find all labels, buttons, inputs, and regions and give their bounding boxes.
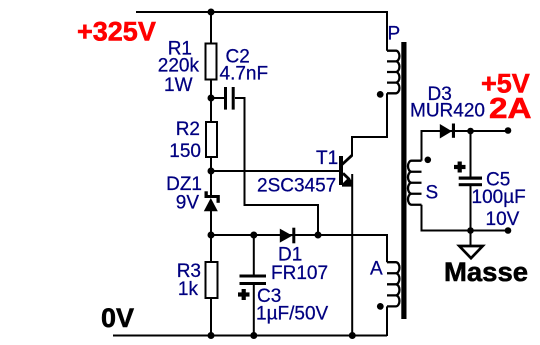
svg-text:FR107: FR107 (271, 263, 328, 284)
svg-text:R2: R2 (176, 119, 200, 140)
svg-text:1k: 1k (178, 279, 199, 300)
svg-text:2A: 2A (489, 93, 532, 125)
svg-text:1W: 1W (164, 75, 193, 96)
svg-text:220k: 220k (158, 56, 200, 77)
svg-text:4.7nF: 4.7nF (220, 64, 269, 85)
svg-text:A: A (370, 259, 383, 280)
svg-text:Masse: Masse (444, 257, 528, 287)
svg-text:S: S (426, 182, 439, 203)
svg-text:1µF/50V: 1µF/50V (256, 304, 329, 325)
svg-text:P: P (388, 24, 401, 45)
svg-text:T1: T1 (316, 148, 338, 169)
svg-text:+325V: +325V (77, 17, 156, 47)
svg-text:2SC3457: 2SC3457 (257, 176, 336, 197)
svg-text:100µF: 100µF (472, 187, 526, 208)
svg-text:0V: 0V (101, 303, 134, 333)
svg-text:MUR420: MUR420 (410, 100, 485, 121)
svg-text:150: 150 (169, 141, 201, 162)
svg-text:10V: 10V (486, 209, 520, 230)
svg-text:9V: 9V (176, 193, 200, 214)
